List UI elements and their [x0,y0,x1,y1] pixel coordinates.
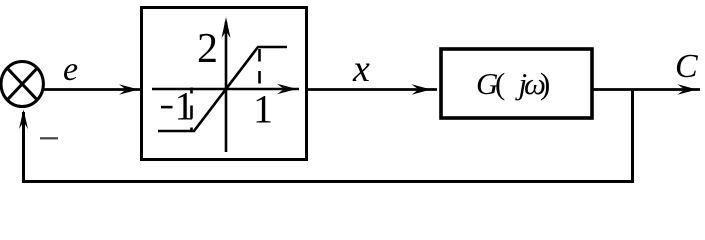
svg-text:C: C [675,48,698,85]
saturation slant line [194,47,258,131]
wire x: nonlinearity block to G block [307,88,437,91]
feedback vertical wire up to summing junction [22,112,25,183]
dashed line at -1 [190,88,193,131]
takeoff vertical wire down from output [631,89,634,183]
feedback bottom wire [22,180,634,183]
arrowhead into G block [412,84,432,94]
svg-text:1: 1 [175,84,195,129]
saturation bottom level line [158,130,195,133]
nonlinearity block N [142,8,307,160]
dashed line at +1 [258,49,261,87]
svg-text:2: 2 [197,26,218,72]
vertical axis arrowhead [222,17,231,38]
svg-text:1: 1 [253,87,273,132]
minus sign label [40,137,58,139]
horizontal axis of saturation plot [152,88,299,91]
saturation top level line [257,46,287,49]
vertical axis of saturation plot [225,22,228,152]
output wire C [593,88,700,91]
horizontal axis arrowhead [277,84,297,94]
svg-text:e: e [63,51,78,88]
block G(jw) [441,49,592,118]
arrowhead output C [678,84,698,94]
wire e: summing junction to nonlinearity block [43,88,140,91]
svg-text:x: x [352,48,370,90]
svg-text:(: ( [495,66,512,101]
label -1 minus stroke [161,106,173,109]
summing junction circle [1,62,43,107]
arrowhead into nonlinearity block [119,84,139,94]
feedback arrowhead into summing junction [19,110,28,130]
summing junction X diagonal 1 [7,68,37,100]
svg-text:): ) [540,66,550,101]
summing junction X diagonal 2 [7,68,37,100]
